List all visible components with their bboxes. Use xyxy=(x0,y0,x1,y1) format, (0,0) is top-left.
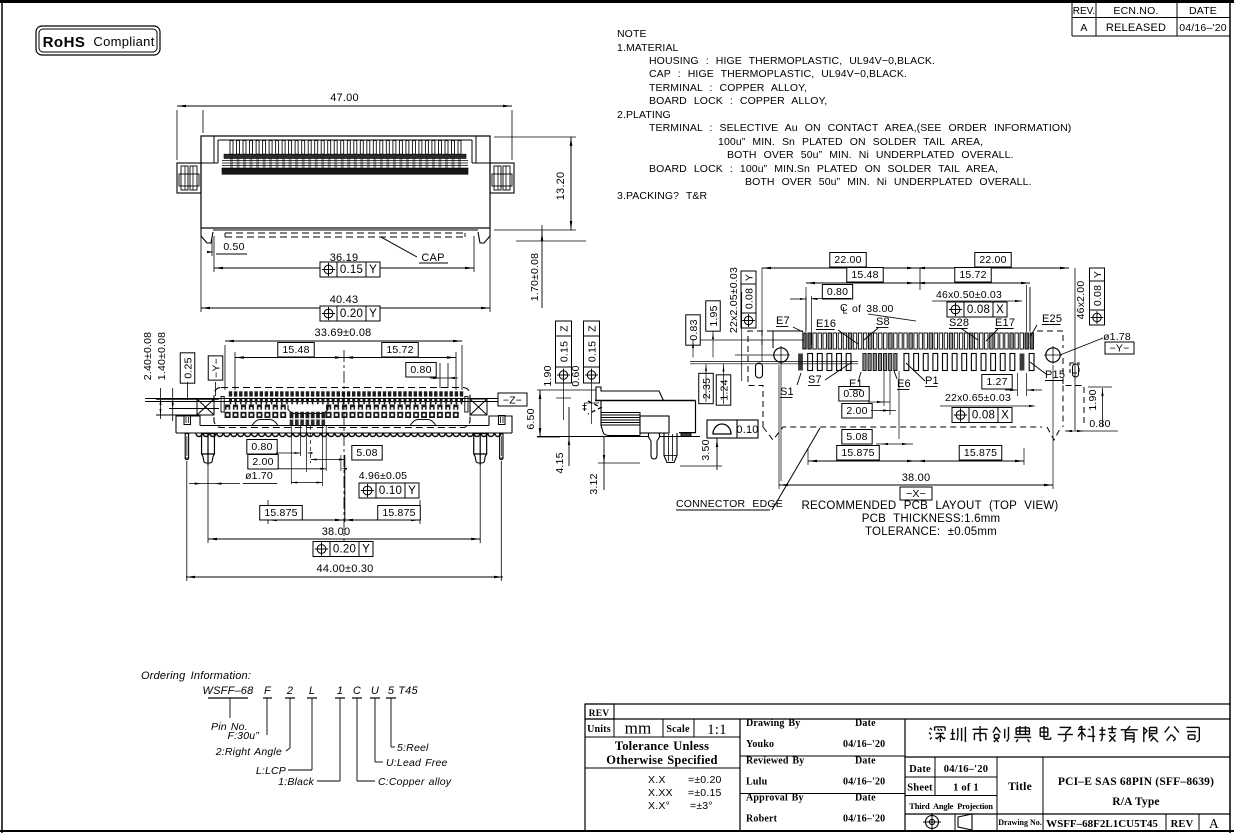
svg-text:of 38.00: of 38.00 xyxy=(852,303,894,315)
dim 3.12 xyxy=(588,437,640,495)
svg-text:E1: E1 xyxy=(849,378,863,390)
svg-text:Title: Title xyxy=(1008,781,1032,793)
pcb left dim lines xyxy=(690,268,858,481)
front view solder tails xyxy=(196,434,501,437)
label S8 xyxy=(864,316,890,340)
front view solder row 3 xyxy=(225,405,458,410)
svg-text:0.15: 0.15 xyxy=(558,341,570,362)
svg-text:1.24: 1.24 xyxy=(718,379,730,400)
svg-text:Scale: Scale xyxy=(666,724,690,735)
top view housing body xyxy=(201,136,490,228)
connector edge label xyxy=(676,428,820,510)
dims 1.90/0.60 side xyxy=(542,365,599,424)
svg-text:E7: E7 xyxy=(776,315,790,327)
svg-text:−Y−: −Y− xyxy=(1110,343,1130,355)
dim 46x0.50 xyxy=(932,285,1030,332)
front view left retention X xyxy=(197,399,214,415)
svg-text:38.00: 38.00 xyxy=(902,472,931,484)
front view solder row 4 xyxy=(225,412,459,418)
svg-text:Drawing No.: Drawing No. xyxy=(998,818,1042,827)
svg-text:6.50: 6.50 xyxy=(525,408,537,429)
dim 15.72 front xyxy=(344,343,456,391)
svg-text:Otherwise Specified: Otherwise Specified xyxy=(606,753,717,767)
svg-text:3.50: 3.50 xyxy=(700,439,712,460)
svg-text:S8: S8 xyxy=(876,316,890,328)
svg-text:Date: Date xyxy=(909,764,931,775)
svg-text:CONNECTOR EDGE: CONNECTOR EDGE xyxy=(676,498,783,510)
svg-text:Robert: Robert xyxy=(746,814,778,825)
dim 33.69±0.08 xyxy=(225,327,462,390)
svg-text:L: L xyxy=(843,306,848,316)
svg-text:47.00: 47.00 xyxy=(330,92,359,104)
svg-text:2.00: 2.00 xyxy=(252,456,273,468)
svg-text:3.PACKING? T&R: 3.PACKING? T&R xyxy=(617,190,708,202)
svg-text:5: 5 xyxy=(388,685,395,697)
svg-text:Date: Date xyxy=(855,756,876,767)
svg-text:5.08: 5.08 xyxy=(356,447,377,459)
svg-text:U:Lead Free: U:Lead Free xyxy=(386,757,448,769)
dim 38.00 pcb xyxy=(779,365,1053,500)
dim 15.48 front xyxy=(235,343,344,391)
front view flange xyxy=(176,397,512,434)
svg-text:1.95: 1.95 xyxy=(708,305,720,326)
svg-text:0.20: 0.20 xyxy=(340,308,363,320)
svg-text:ø1.70: ø1.70 xyxy=(245,470,273,482)
svg-text:X.XX: X.XX xyxy=(648,787,673,799)
svg-text:1.27: 1.27 xyxy=(986,376,1007,388)
svg-text:2:Right Angle: 2:Right Angle xyxy=(215,746,282,758)
svg-text:Y: Y xyxy=(369,308,377,320)
front view right stub xyxy=(500,434,503,460)
svg-text:TOLERANCE: ±0.05mm: TOLERANCE: ±0.05mm xyxy=(865,526,997,538)
dims 15.875 front xyxy=(260,500,421,524)
svg-text:15.72: 15.72 xyxy=(959,269,986,281)
svg-text:E17: E17 xyxy=(995,317,1015,329)
svg-text:Y: Y xyxy=(743,274,755,281)
svg-text:0.08: 0.08 xyxy=(1092,285,1104,306)
svg-text:Y: Y xyxy=(369,264,377,276)
svg-text:0.08: 0.08 xyxy=(743,288,755,309)
front view contact row 1 xyxy=(229,391,463,396)
svg-text:04/16–'20: 04/16–'20 xyxy=(843,814,885,825)
svg-text:0.80: 0.80 xyxy=(410,364,431,376)
svg-text:E16: E16 xyxy=(816,318,836,330)
svg-text:Sheet: Sheet xyxy=(907,783,933,794)
label S7 xyxy=(808,362,852,386)
svg-text:0.08: 0.08 xyxy=(972,410,995,422)
svg-text:15.875: 15.875 xyxy=(382,507,415,519)
svg-text:REV.: REV. xyxy=(1073,6,1095,17)
pcb captions xyxy=(802,500,1059,538)
svg-text:X: X xyxy=(1001,410,1009,422)
svg-text:TERMINAL : SELECTIVE Au ON CON: TERMINAL : SELECTIVE Au ON CONTACT AREA,… xyxy=(649,122,1071,134)
dim 5.08 front xyxy=(311,426,383,463)
svg-text:BOTH OVER 50u” MIN. Ni UNDERPL: BOTH OVER 50u” MIN. Ni UNDERPLATED OVERA… xyxy=(727,149,1014,161)
svg-text:100u” MIN. Sn PLATED ON SOLDER: 100u” MIN. Sn PLATED ON SOLDER TAIL AREA… xyxy=(718,136,983,148)
svg-text:22.00: 22.00 xyxy=(834,254,861,266)
svg-text:A: A xyxy=(1209,816,1219,831)
pcb right hole xyxy=(1044,346,1062,364)
dim 0.80 pcb right xyxy=(1065,418,1118,432)
svg-text:S28: S28 xyxy=(949,317,969,329)
label E7 xyxy=(773,315,803,348)
svg-text:F: F xyxy=(264,685,272,697)
svg-text:U: U xyxy=(371,685,379,697)
svg-text:Z: Z xyxy=(558,325,570,332)
svg-text:Compliant: Compliant xyxy=(93,34,154,49)
svg-text:0.83: 0.83 xyxy=(688,319,700,340)
pcb dims 0.80/2.00/5.08 xyxy=(839,371,913,445)
svg-text:Youko: Youko xyxy=(746,739,774,750)
dim 38.00 front xyxy=(208,465,480,557)
dim 3.50 xyxy=(680,437,722,470)
svg-text:04/16–'20: 04/16–'20 xyxy=(843,777,885,788)
CAP label xyxy=(381,237,448,264)
svg-text:A: A xyxy=(1080,22,1087,34)
svg-text:S1: S1 xyxy=(780,386,794,398)
svg-text:−Z−: −Z− xyxy=(503,395,522,407)
svg-text:CAP: CAP xyxy=(421,252,444,264)
svg-text:Z: Z xyxy=(586,325,598,332)
svg-text:REV: REV xyxy=(1171,819,1194,830)
datum -Z- box xyxy=(498,393,527,407)
ordering codes xyxy=(141,670,418,698)
svg-text:DATE: DATE xyxy=(1189,5,1217,17)
svg-text:22x0.65±0.03: 22x0.65±0.03 xyxy=(945,392,1011,404)
svg-text:0.80: 0.80 xyxy=(827,286,848,298)
svg-text:S7: S7 xyxy=(808,374,822,386)
svg-text:PCI–E SAS 68PIN (SFF–8639): PCI–E SAS 68PIN (SFF–8639) xyxy=(1058,776,1214,788)
dim 36.19 xyxy=(214,236,474,277)
svg-text:BOARD LOCK : 100u” MIN.Sn PLAT: BOARD LOCK : 100u” MIN.Sn PLATED ON SOLD… xyxy=(649,163,998,175)
front view left leg xyxy=(202,434,215,465)
svg-text:=±0.20: =±0.20 xyxy=(688,774,722,786)
top view contact pins xyxy=(222,141,468,175)
svg-text:PCB THICKNESS:1.6mm: PCB THICKNESS:1.6mm xyxy=(862,513,1001,525)
top view right board lock ear xyxy=(490,163,514,193)
pcb dashed connector outline xyxy=(748,331,1084,440)
pcb bottom pad row xyxy=(798,354,1034,371)
svg-text:Third Angle Projection: Third Angle Projection xyxy=(909,801,993,811)
svg-text:Ordering Information:: Ordering Information: xyxy=(141,670,251,682)
svg-text:X: X xyxy=(996,304,1004,316)
dim ø1.78 / -Y- xyxy=(1060,331,1134,355)
svg-text:13.20: 13.20 xyxy=(555,172,567,201)
svg-text:33.69±0.08: 33.69±0.08 xyxy=(315,327,372,339)
svg-text:−Y−: −Y− xyxy=(210,358,222,378)
svg-text:1.MATERIAL: 1.MATERIAL xyxy=(617,42,679,54)
svg-text:5.08: 5.08 xyxy=(846,431,867,443)
dim ø1.70 xyxy=(189,470,277,485)
svg-text:0.10: 0.10 xyxy=(379,485,402,497)
svg-text:40.43: 40.43 xyxy=(330,294,359,306)
svg-text:E6: E6 xyxy=(897,378,911,390)
pcb ext lines xyxy=(920,268,1075,430)
dim 0.80 pcb xyxy=(790,285,853,346)
dim 47.00 xyxy=(177,92,512,160)
svg-text:RECOMMENDED PCB LAYOUT (TOP: RECOMMENDED PCB LAYOUT (TOP VIEW) xyxy=(802,500,1059,512)
svg-text:0.25: 0.25 xyxy=(182,357,194,378)
svg-text:1 of 1: 1 of 1 xyxy=(953,783,979,794)
label E1 xyxy=(849,372,863,390)
svg-text:4.15: 4.15 xyxy=(554,452,566,473)
svg-text:0.50: 0.50 xyxy=(223,241,244,253)
dims 15.875 pcb xyxy=(808,446,1024,466)
svg-text:0.80: 0.80 xyxy=(1089,418,1110,430)
dim 0.50 xyxy=(207,239,247,256)
fcf2 side xyxy=(584,321,600,383)
svg-text:0.10: 0.10 xyxy=(736,424,758,436)
svg-text:BOARD LOCK : COPPER ALLOY,: BOARD LOCK : COPPER ALLOY, xyxy=(649,95,827,107)
company name (CJK strokes) xyxy=(929,726,1199,742)
dim 22.00 left xyxy=(762,253,916,270)
svg-text:Date: Date xyxy=(855,793,876,804)
svg-text:Reviewed By: Reviewed By xyxy=(746,756,804,767)
dim 4.15 xyxy=(554,407,570,474)
svg-text:T45: T45 xyxy=(398,685,418,697)
svg-text:0.60: 0.60 xyxy=(570,365,582,386)
front view right retention X xyxy=(470,399,487,415)
svg-text:38.00: 38.00 xyxy=(322,526,351,538)
svg-text:04/16–'20: 04/16–'20 xyxy=(944,764,988,775)
svg-text:REV: REV xyxy=(589,709,610,719)
svg-text:Tolerance Unless: Tolerance Unless xyxy=(615,739,709,753)
svg-text:0.08: 0.08 xyxy=(967,304,990,316)
svg-text:C: C xyxy=(353,685,361,697)
dim 13.20 xyxy=(494,137,576,230)
svg-text:C:Copper alloy: C:Copper alloy xyxy=(378,776,452,788)
svg-text:15.875: 15.875 xyxy=(264,507,297,519)
dim 44.00±0.30 xyxy=(186,461,503,581)
datum -Y- front xyxy=(208,356,223,396)
svg-text:Y: Y xyxy=(362,544,370,556)
label S28 xyxy=(949,317,978,340)
svg-text:RELEASED: RELEASED xyxy=(1106,22,1166,34)
svg-text:Approval By: Approval By xyxy=(746,793,804,804)
pcb left slot xyxy=(756,363,763,378)
svg-text:RoHS: RoHS xyxy=(43,34,86,51)
top view left board lock ear xyxy=(177,163,201,193)
dims 0.80/2.00 lower xyxy=(247,426,347,522)
svg-text:1: 1 xyxy=(337,685,343,697)
svg-text:04/16–'20: 04/16–'20 xyxy=(1179,22,1227,34)
label E25 xyxy=(1030,313,1062,337)
svg-text:=±0.15: =±0.15 xyxy=(688,787,722,799)
front view left stub xyxy=(185,434,188,460)
label E16 xyxy=(816,318,858,344)
side view body xyxy=(537,387,700,463)
front view housing (dashed) xyxy=(145,388,500,428)
svg-text:2.PLATING: 2.PLATING xyxy=(617,109,671,121)
svg-text:0.15: 0.15 xyxy=(340,264,363,276)
svg-text:R/A Type: R/A Type xyxy=(1112,796,1160,808)
svg-text:22.00: 22.00 xyxy=(979,254,1006,266)
svg-text:1.90: 1.90 xyxy=(542,365,554,386)
svg-text:X.X°: X.X° xyxy=(648,800,670,812)
svg-text:Drawing By: Drawing By xyxy=(746,718,800,729)
svg-text:Date: Date xyxy=(855,718,876,729)
svg-text:2: 2 xyxy=(286,685,293,697)
svg-text:=±3°: =±3° xyxy=(690,800,713,812)
svg-text:15.72: 15.72 xyxy=(386,344,413,356)
dim 15.48 pcb xyxy=(806,268,916,331)
svg-text:ø1.78: ø1.78 xyxy=(1103,331,1131,343)
dim 40.43 xyxy=(201,232,490,321)
label E6 xyxy=(894,370,911,390)
svg-text:ECN.NO.: ECN.NO. xyxy=(1113,5,1158,17)
dim 1.70±0.08 xyxy=(516,225,586,308)
dim 6.50 xyxy=(525,390,596,437)
centerline note xyxy=(840,302,916,321)
notes text xyxy=(617,28,1071,202)
svg-text:WSFF–68F2L1CU5T45: WSFF–68F2L1CU5T45 xyxy=(1046,818,1158,830)
svg-text:0.20: 0.20 xyxy=(333,544,356,556)
svg-text:04/16–'20: 04/16–'20 xyxy=(843,739,885,750)
svg-text:1:Black: 1:Black xyxy=(278,776,314,788)
dim 1.27 xyxy=(982,373,1042,396)
svg-text:3.12: 3.12 xyxy=(588,473,600,494)
front view contact row 2 xyxy=(229,399,463,405)
svg-text:1:1: 1:1 xyxy=(707,722,727,738)
svg-text:1.70±0.08: 1.70±0.08 xyxy=(529,253,541,301)
svg-text:BOTH OVER 50u” MIN. Ni UNDERPL: BOTH OVER 50u” MIN. Ni UNDERPLATED OVERA… xyxy=(745,176,1032,188)
svg-text:P1: P1 xyxy=(925,375,939,387)
ordering leaders xyxy=(211,698,452,788)
svg-text:22x2.05±0.03: 22x2.05±0.03 xyxy=(728,267,740,333)
dim 22.00 right xyxy=(916,253,1069,270)
svg-text:2.35: 2.35 xyxy=(701,378,713,399)
svg-text:46x2.00: 46x2.00 xyxy=(1075,281,1087,320)
svg-text:15.48: 15.48 xyxy=(851,269,878,281)
svg-text:Y: Y xyxy=(1092,271,1104,278)
svg-text:4.96±0.05: 4.96±0.05 xyxy=(359,470,407,482)
svg-text:15.875: 15.875 xyxy=(841,447,874,459)
svg-text:E25: E25 xyxy=(1042,313,1062,325)
svg-text:Units: Units xyxy=(587,724,611,735)
dim 15.72 pcb xyxy=(916,268,1030,331)
label E17 xyxy=(986,317,1015,341)
svg-text:−X−: −X− xyxy=(906,488,926,500)
dim 0.80 front top xyxy=(406,363,458,389)
revision table xyxy=(1072,1,1230,36)
svg-text:2.00: 2.00 xyxy=(846,405,867,417)
datum 0.25 box xyxy=(180,353,195,400)
svg-text:15.48: 15.48 xyxy=(282,344,309,356)
dim 4.96±0.05 + FCF xyxy=(291,470,419,498)
svg-text:0.80: 0.80 xyxy=(251,441,272,453)
dim 22x0.65 xyxy=(940,392,1036,423)
svg-text:L: L xyxy=(309,685,315,697)
svg-text:2.40±0.08: 2.40±0.08 xyxy=(142,332,154,380)
svg-text:1.90: 1.90 xyxy=(1087,389,1099,410)
top view cap dashed outline xyxy=(201,228,490,243)
pcb top pad row xyxy=(803,333,1034,349)
title block left/middle xyxy=(585,704,1230,831)
pcb left hole xyxy=(772,346,790,364)
svg-text:NOTE: NOTE xyxy=(617,28,647,40)
svg-text:P15: P15 xyxy=(1045,369,1065,381)
svg-text:WSFF–68: WSFF–68 xyxy=(203,685,255,697)
svg-text:15.875: 15.875 xyxy=(964,447,997,459)
svg-text:1.40±0.08: 1.40±0.08 xyxy=(156,332,168,380)
RoHS Compliant badge xyxy=(36,26,160,55)
svg-text:44.00±0.30: 44.00±0.30 xyxy=(317,563,374,575)
label P1 xyxy=(906,363,939,387)
fcf1 side xyxy=(556,321,572,383)
svg-text:Y: Y xyxy=(408,485,416,497)
svg-text:CAP : HIGE THERMOPLASTIC, UL94: CAP : HIGE THERMOPLASTIC, UL94V−0,BLACK. xyxy=(649,68,907,80)
svg-text:TERMINAL : COPPER ALLOY,: TERMINAL : COPPER ALLOY, xyxy=(649,82,807,94)
front view middle dropped pins xyxy=(288,405,328,426)
dim 46x2.00 + fcf xyxy=(1075,268,1105,325)
title block right xyxy=(905,757,1230,831)
flatness 0.10 frame xyxy=(707,420,759,438)
label S1 xyxy=(780,373,801,398)
svg-text:0.15: 0.15 xyxy=(586,341,598,362)
svg-text:HOUSING : HIGE THERMOPLASTIC,: HOUSING : HIGE THERMOPLASTIC, UL94V−0,BL… xyxy=(649,55,935,67)
svg-text:5:Reel: 5:Reel xyxy=(397,742,429,754)
pcb left dim boxes xyxy=(686,267,756,405)
svg-text:Lulu: Lulu xyxy=(746,777,768,788)
front view centerline xyxy=(343,350,345,560)
front view right leg xyxy=(474,434,487,465)
svg-text:46x0.50±0.03: 46x0.50±0.03 xyxy=(936,289,1002,301)
svg-text:X.X: X.X xyxy=(648,774,666,786)
dims 2.40/1.40 xyxy=(142,332,219,421)
label P15 xyxy=(1030,362,1065,381)
svg-text:mm: mm xyxy=(625,719,652,738)
svg-text:F:30u”: F:30u” xyxy=(227,730,259,742)
dim 1.90 pcb xyxy=(1087,387,1112,427)
